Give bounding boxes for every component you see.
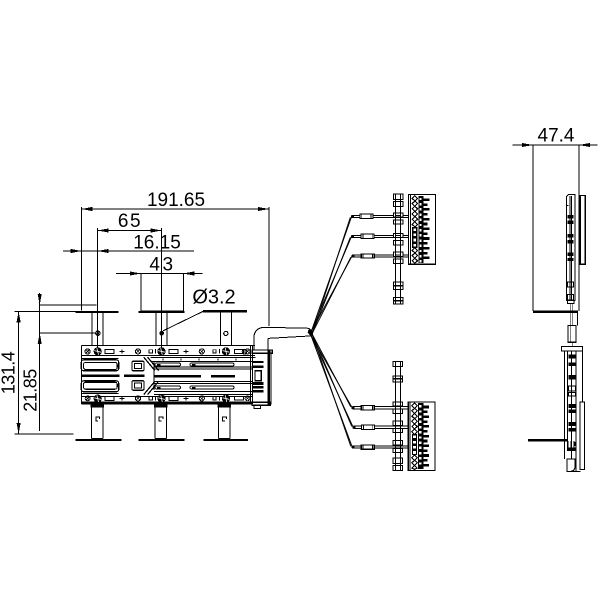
svg-text:191.65: 191.65	[147, 190, 205, 211]
svg-text:16.15: 16.15	[133, 233, 181, 254]
svg-text:131.4: 131.4	[0, 351, 19, 394]
svg-text:43: 43	[149, 255, 175, 276]
svg-text:21.85: 21.85	[21, 369, 41, 412]
svg-text:65: 65	[118, 211, 142, 232]
svg-text:47.4: 47.4	[538, 126, 575, 147]
svg-text:Ø3.2: Ø3.2	[192, 287, 235, 309]
